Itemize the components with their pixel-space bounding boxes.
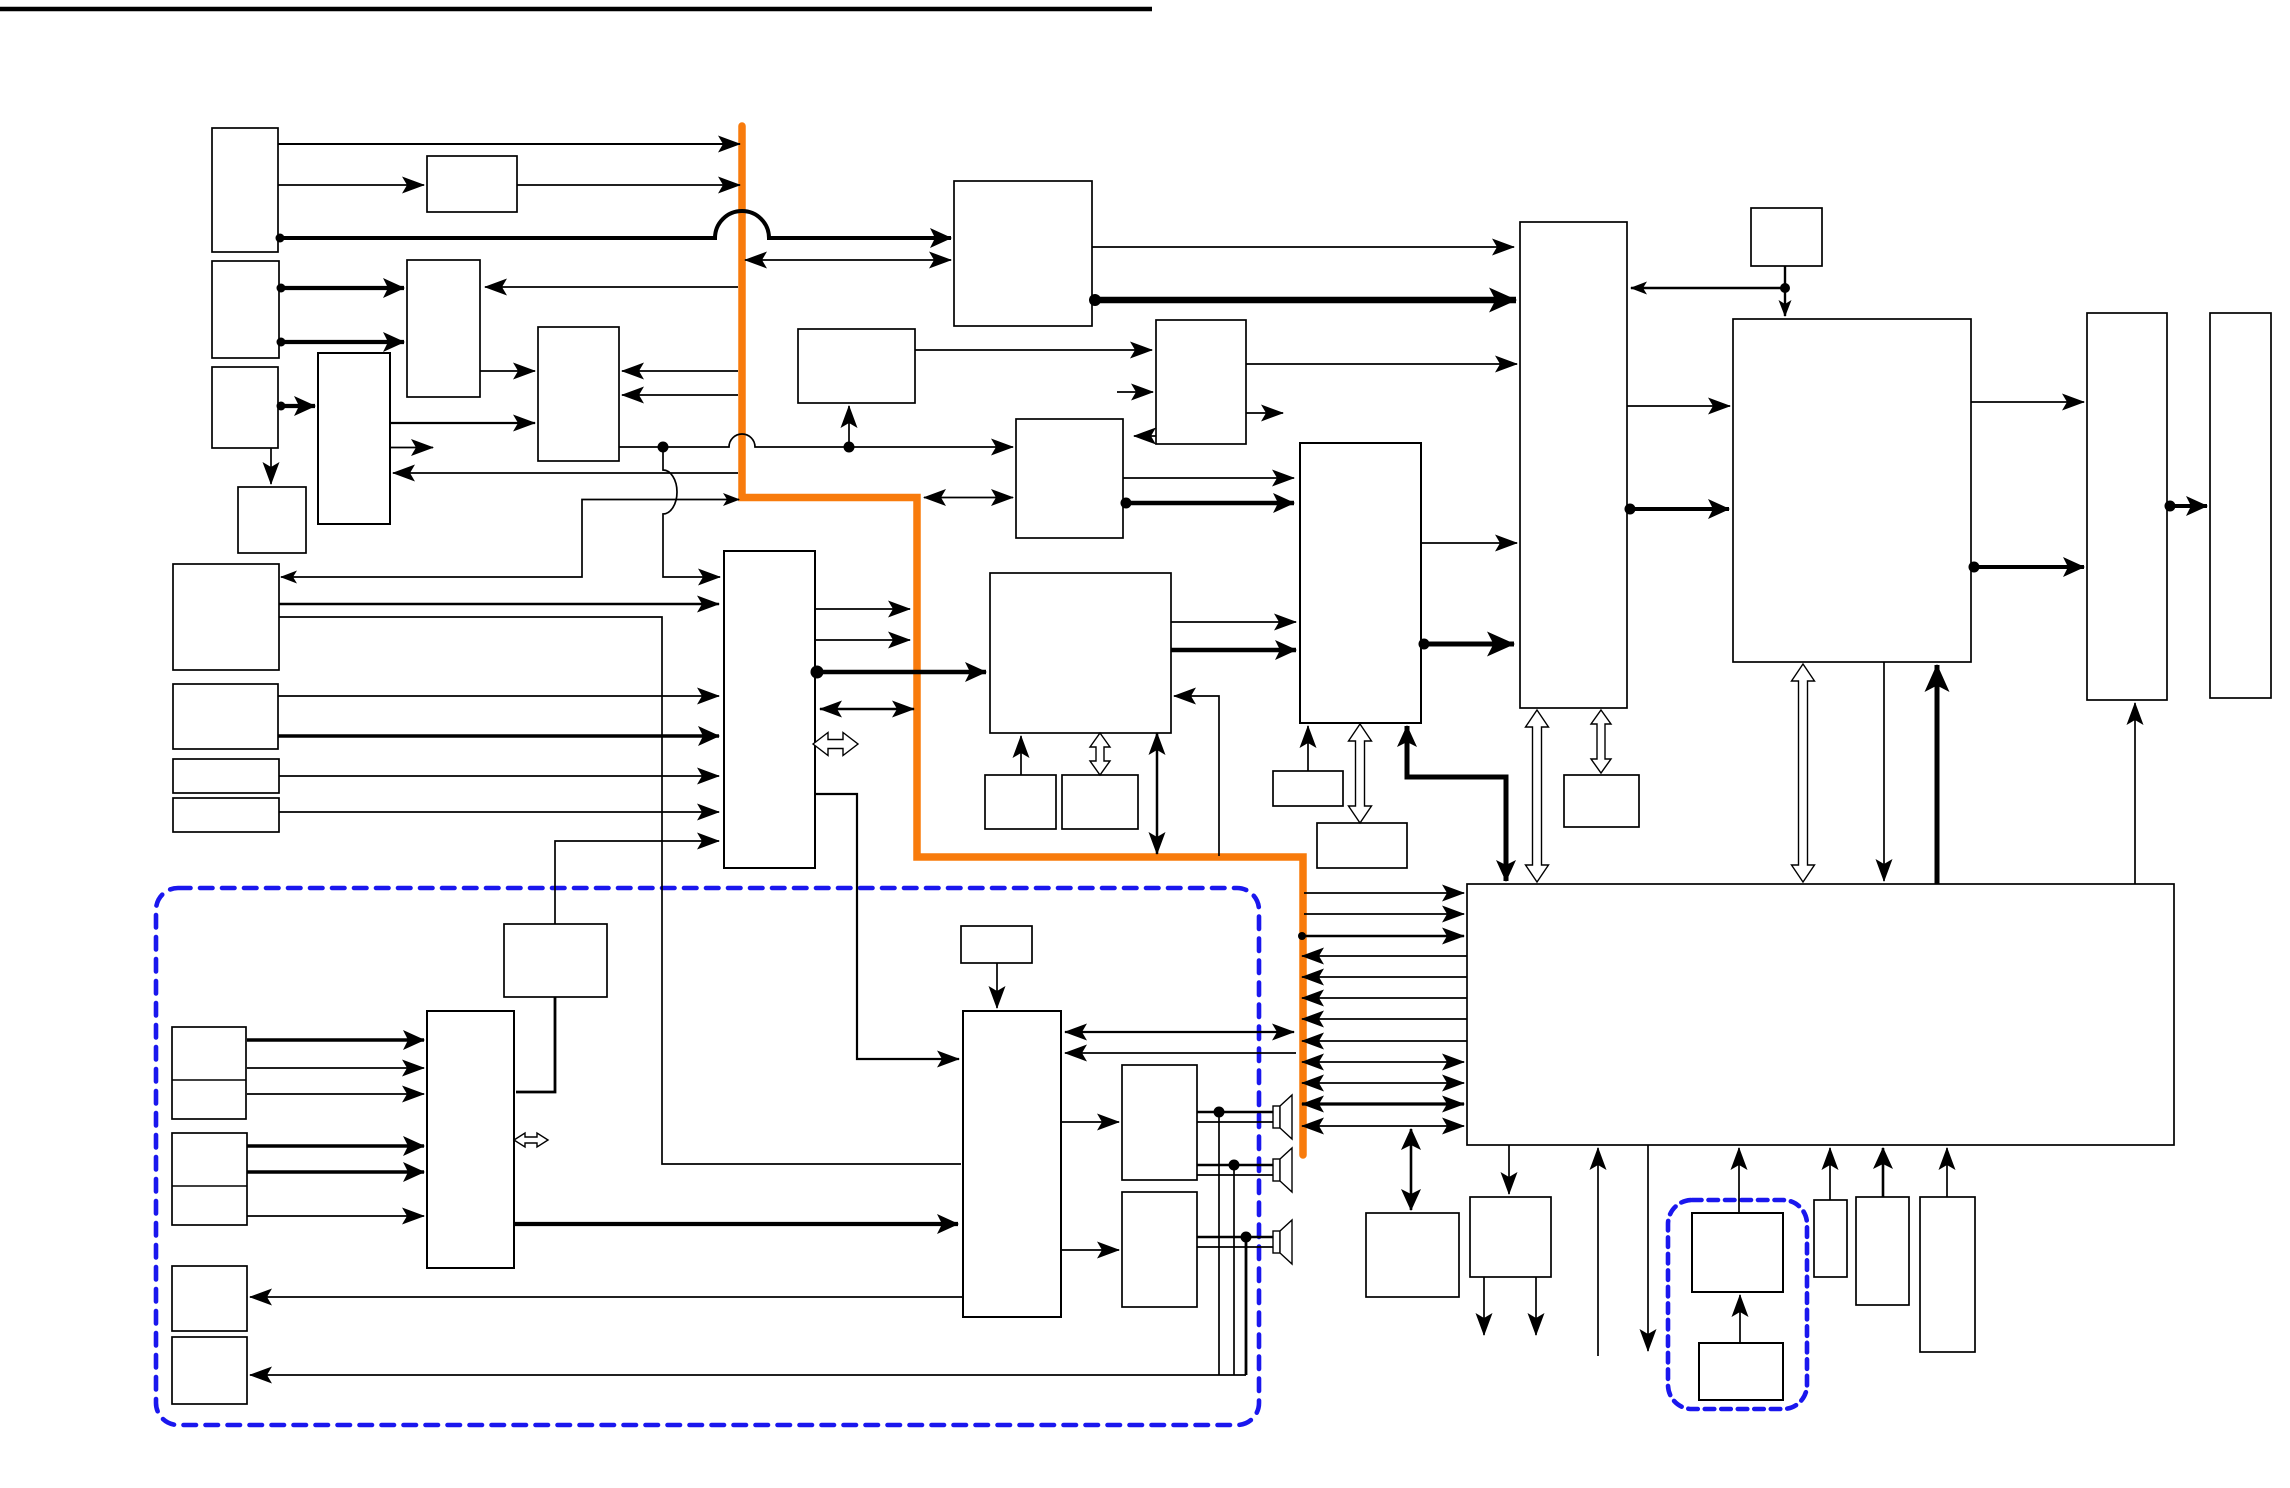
wire AF up to BB bbox=[1738, 1148, 1740, 1213]
box AF standby supply bbox=[1692, 1213, 1783, 1292]
box L sync bbox=[1156, 320, 1246, 444]
wire AJ up to BB bbox=[1946, 1148, 1948, 1197]
wire speaker1 down bbox=[1218, 1112, 1220, 1375]
wire S2 up to Q bbox=[1020, 736, 1022, 775]
wire TT to FF1 y1297 bbox=[250, 1296, 963, 1298]
box AA rom bbox=[1273, 771, 1343, 806]
box T reset bbox=[961, 926, 1032, 963]
junction at M thick output bbox=[1121, 498, 1132, 509]
wire Z from bus corner to U1 bbox=[281, 500, 739, 578]
wire bus to BB y893 bbox=[1304, 892, 1464, 894]
hollow arrow at CC right bbox=[514, 1133, 548, 1147]
wire junction down to X bbox=[1784, 288, 1786, 316]
junction on bus y936 bbox=[1298, 932, 1306, 940]
wire Z1 to Z2 y506 bbox=[2167, 504, 2207, 508]
box TT audio amp controller bbox=[963, 1011, 1061, 1317]
wire bus-J bidirectional y261 bbox=[745, 259, 951, 261]
wire A1 speaker1 ret bbox=[1197, 1121, 1273, 1123]
wire bus to G y395 bbox=[622, 394, 738, 396]
box DD tuner keys bbox=[172, 1027, 246, 1119]
wire junction down to N input1 bbox=[663, 452, 720, 577]
wire G to M with hop over bus bbox=[619, 434, 1013, 447]
blue dashed group: front panel block bbox=[156, 888, 1259, 1425]
wire C to D thick y288 bbox=[279, 286, 404, 290]
hollow arrow X to BB bbox=[1792, 664, 1815, 882]
orange highlighted signal path bbox=[742, 126, 1303, 1155]
junction at A output bbox=[276, 234, 285, 243]
wire bus to BB y936 med bbox=[1302, 935, 1464, 937]
box X panel controller bbox=[1733, 319, 1971, 662]
box EE volume keys bbox=[172, 1133, 247, 1225]
wire AE down dangling 2 bbox=[1535, 1277, 1537, 1335]
wire TT to A1 bbox=[1061, 1121, 1119, 1123]
wire M to W y478 bbox=[1123, 477, 1294, 479]
wire up into BB x1598 bbox=[1597, 1148, 1599, 1356]
blue dashed group: small power block bbox=[1668, 1200, 1807, 1409]
box Q audio dsp bbox=[990, 573, 1171, 733]
wire stub into L y392 bbox=[1117, 391, 1153, 393]
wire M-buscorner bidirectional y497 bbox=[924, 497, 1013, 499]
wire J to V y247 bbox=[1092, 246, 1514, 248]
junction on G-M wire at x849 bbox=[844, 442, 855, 453]
wire F to G y423 bbox=[390, 422, 535, 424]
box AH sensor1 bbox=[1814, 1200, 1847, 1277]
wire junction to V y290 bbox=[1631, 287, 1785, 289]
box DD divider bbox=[172, 1079, 246, 1081]
wire TT to A2 bbox=[1061, 1249, 1119, 1251]
wire BB to bus y977 bbox=[1302, 976, 1467, 978]
wire bus to F y473 bbox=[393, 472, 738, 474]
wire speaker3 down med bbox=[1245, 1237, 1248, 1375]
wire X to Z1 y402 bbox=[1971, 401, 2084, 403]
wire A to B y185 bbox=[278, 184, 424, 186]
box S keypad encoder bbox=[504, 924, 607, 997]
wire bus riser to Q y696 bbox=[1174, 696, 1219, 856]
wire U2 to N y696 bbox=[278, 695, 719, 697]
box M scaler bbox=[1016, 419, 1123, 538]
box Z1 column driver bbox=[2087, 313, 2167, 700]
box AG mains input bbox=[1699, 1343, 1783, 1400]
box CC front micro bbox=[427, 1011, 514, 1268]
wire F dangling arrow y447 bbox=[390, 447, 433, 449]
wire A2 speaker3 hot bbox=[1197, 1236, 1273, 1238]
wire U1 to N thick y604 bbox=[279, 603, 719, 606]
box AI sensor2 bbox=[1856, 1197, 1909, 1305]
junction at Z1 output bbox=[2165, 501, 2176, 512]
wire BB to bus y956 bbox=[1302, 955, 1467, 957]
wire junction up to K bbox=[848, 406, 850, 447]
hollow arrow at N right bbox=[813, 733, 858, 756]
wire W to V y543 bbox=[1421, 542, 1517, 544]
wire AA up to W bbox=[1307, 726, 1309, 771]
wire Y down to junction bbox=[1784, 266, 1786, 290]
wire EE to CC y1216 bbox=[247, 1215, 424, 1217]
box K buffer bbox=[798, 329, 915, 403]
wire A1 speaker2 hot bbox=[1197, 1164, 1273, 1166]
wire BB-bus bidirectional y1125 bbox=[1302, 1125, 1464, 1127]
box AC flash bbox=[1564, 775, 1639, 827]
wire BB to bus y998 bbox=[1302, 997, 1467, 999]
junction speaker3 bbox=[1241, 1232, 1252, 1243]
wire D to G y371 bbox=[480, 370, 535, 372]
wire S riser to N y841 bbox=[555, 841, 719, 924]
wire Q to W y622 bbox=[1171, 621, 1296, 623]
junction speaker2 bbox=[1229, 1160, 1240, 1171]
wire U1 down to TT bbox=[279, 617, 961, 1164]
junction at J thick output bbox=[1089, 294, 1101, 306]
wire X to Z1 thick y567 bbox=[1971, 565, 2084, 569]
box D decoder bbox=[407, 260, 480, 397]
wire A thick to J with hop bbox=[278, 211, 951, 238]
box AE regulator bbox=[1470, 1197, 1551, 1277]
wire BB-bus bidirectional y1083 bbox=[1302, 1082, 1464, 1084]
wire N to bus y609 bbox=[815, 608, 910, 610]
wire L dangling y413 bbox=[1246, 412, 1283, 414]
junction at X thick output bbox=[1969, 562, 1980, 573]
junction at N output thick bbox=[811, 666, 824, 679]
speaker 3 bbox=[1273, 1220, 1292, 1264]
wire bus to G y371 bbox=[622, 370, 738, 372]
wire X down to BB bbox=[1883, 662, 1885, 881]
hollow arrow V to BB bbox=[1526, 710, 1549, 882]
wire BB to bus y1019 bbox=[1302, 1018, 1467, 1020]
wire K to L bbox=[915, 349, 1152, 351]
box S3 ram bbox=[1062, 775, 1138, 829]
wire Q to W thick y650 bbox=[1171, 648, 1296, 653]
wire BB-bus bidirectional y1104 med bbox=[1302, 1102, 1464, 1105]
wire EE to CC thick y1172 bbox=[247, 1170, 424, 1174]
wire N to Q thick y672 bbox=[815, 670, 986, 675]
wire bus to D y287 bbox=[485, 286, 738, 288]
wire Q-bus vertical bidirectional bbox=[1156, 733, 1159, 854]
box AD osc bbox=[1366, 1213, 1459, 1297]
wire BB up to Z1 bbox=[2134, 703, 2136, 884]
box Y small clock bbox=[1751, 208, 1822, 266]
junction at C output2 bbox=[277, 338, 286, 347]
wire speakers to FF2 y1375 bbox=[250, 1374, 1246, 1376]
wire CC to TT thick y1224 bbox=[514, 1222, 958, 1226]
box V main processor bbox=[1520, 222, 1627, 708]
box N av switch bbox=[724, 551, 815, 868]
wire A1 speaker2 ret bbox=[1197, 1174, 1273, 1176]
wire BB down dangling x1648 bbox=[1647, 1145, 1649, 1351]
wire BB to bus y1041 bbox=[1302, 1040, 1467, 1042]
hollow arrow Q to S3 bbox=[1090, 733, 1110, 775]
wire J to V xthick y300 bbox=[1092, 297, 1516, 304]
junction at W thick output bbox=[1419, 639, 1430, 650]
wire N to bus y640 bbox=[815, 639, 910, 641]
box AJ sensor3 bbox=[1920, 1197, 1975, 1352]
wire DD to CC y1068 bbox=[247, 1067, 424, 1069]
wire C to D thick y342 bbox=[279, 340, 404, 344]
wire A to bus y144 bbox=[278, 143, 740, 145]
box A1 amplifier L bbox=[1122, 1065, 1197, 1180]
wire TT-orange bidirectional y1032 bbox=[1065, 1031, 1294, 1033]
box U2 av input2 bbox=[173, 684, 278, 749]
box J video decoder bbox=[954, 181, 1092, 326]
wire U4 to N y812 bbox=[279, 811, 719, 813]
wire E down to I bbox=[270, 448, 272, 484]
wire EE to CC thick y1146 bbox=[247, 1144, 424, 1148]
box U3 aux1 bbox=[173, 759, 279, 793]
wire L to M y436 bbox=[1134, 435, 1156, 437]
box F selector bbox=[318, 353, 390, 524]
wire W to V thick y644 bbox=[1421, 642, 1514, 647]
wire L to V y364 bbox=[1246, 363, 1517, 365]
wire V to X thick y509 bbox=[1627, 507, 1729, 511]
wire W-BB thick zigzag bbox=[1407, 726, 1506, 881]
junction speaker1 bbox=[1214, 1107, 1225, 1118]
box BB main micro bbox=[1467, 884, 2174, 1145]
box B small filter bbox=[427, 156, 517, 212]
speaker 1 bbox=[1273, 1095, 1292, 1139]
wire DD to CC thick y1040 bbox=[247, 1038, 424, 1042]
junction at C output1 bbox=[277, 284, 286, 293]
box EE divider bbox=[172, 1185, 247, 1187]
wire BB down to AE bbox=[1508, 1145, 1510, 1194]
box U4 aux2 bbox=[173, 798, 279, 832]
wire DD to CC y1094 bbox=[247, 1093, 424, 1095]
wire AH up to BB bbox=[1829, 1148, 1831, 1200]
wire A1 speaker1 hot bbox=[1197, 1111, 1273, 1113]
hollow arrow V to AC bbox=[1591, 710, 1611, 773]
box A tuner bbox=[212, 128, 278, 252]
wire speaker2 down bbox=[1233, 1165, 1235, 1375]
box U1 av input bbox=[173, 564, 279, 670]
wire B to bus y185 bbox=[517, 184, 740, 186]
box W format converter bbox=[1300, 443, 1421, 723]
box I sub bbox=[238, 487, 306, 553]
box FF2 led2 bbox=[172, 1337, 247, 1404]
box C input2 bbox=[212, 261, 279, 358]
wire AE down dangling 1 bbox=[1483, 1277, 1485, 1335]
wire S down to CC bbox=[516, 997, 555, 1092]
box S2 eeprom bbox=[985, 775, 1056, 829]
wire AG up to AF bbox=[1739, 1295, 1741, 1343]
junction at E output bbox=[277, 402, 286, 411]
wire N-bus bidirectional y709 bbox=[820, 708, 914, 710]
junction at V thick output bbox=[1625, 504, 1636, 515]
box E input3 bbox=[212, 367, 278, 448]
wire A2 speaker3 ret bbox=[1197, 1246, 1273, 1248]
box G processor bbox=[538, 327, 619, 461]
wire BB-bus bidirectional y1062 bbox=[1302, 1061, 1464, 1063]
wire V to X y406 bbox=[1627, 405, 1730, 407]
wire AD bidirectional up bbox=[1410, 1129, 1413, 1210]
title bar bbox=[0, 7, 1152, 12]
wire orange to TT y1053 bbox=[1065, 1052, 1296, 1054]
wire U3 to N y776 bbox=[279, 775, 719, 777]
wire bus to BB y914 bbox=[1304, 913, 1464, 915]
box Z2 panel bbox=[2210, 313, 2271, 698]
wire AI up to BB med bbox=[1882, 1148, 1885, 1197]
wire T down to TT bbox=[996, 963, 998, 1008]
hollow arrow W to AB bbox=[1349, 724, 1372, 823]
speaker 2 bbox=[1273, 1148, 1292, 1192]
box A2 amplifier R bbox=[1122, 1192, 1197, 1307]
wire M to W thick y503 bbox=[1123, 501, 1294, 506]
junction on G-M wire at x663 bbox=[658, 442, 669, 453]
wire E to F thick y406 bbox=[279, 404, 315, 408]
wire N to TT via corner bbox=[815, 794, 959, 1059]
box FF1 led1 bbox=[172, 1266, 247, 1331]
wire BB up to X thick bbox=[1935, 665, 1940, 884]
junction below Y bbox=[1780, 283, 1790, 293]
wire U2 to N thick y736 bbox=[278, 734, 719, 737]
box AB dram bbox=[1317, 823, 1407, 868]
